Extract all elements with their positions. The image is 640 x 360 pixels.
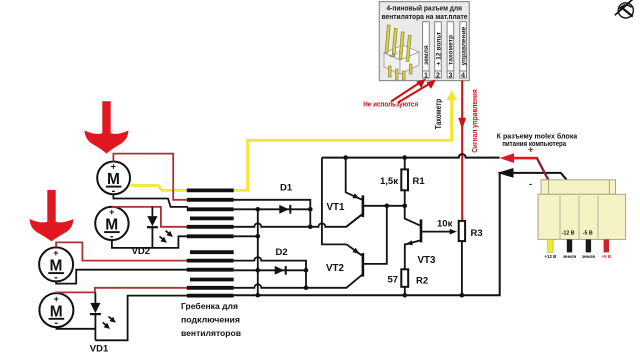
svg-text:VD1: VD1 xyxy=(90,343,109,354)
potentiometer R3 xyxy=(459,221,465,295)
red annotation arrow to pin2 xyxy=(398,80,436,103)
svg-text:-: - xyxy=(529,179,532,189)
red wire +12 to molex xyxy=(513,158,548,180)
top supply rail with hop over red line xyxy=(322,154,500,157)
svg-text:К разъему molex блока: К разъему molex блока xyxy=(497,132,578,140)
svg-text:+: + xyxy=(53,248,58,258)
wire VD1 return to comb xyxy=(95,296,188,341)
comb pin header bars xyxy=(187,190,234,295)
bottom ground rail xyxy=(234,173,567,295)
red control signal line xyxy=(461,81,463,221)
black wire fan M3 minus xyxy=(56,270,188,284)
svg-text:1,5к: 1,5к xyxy=(380,176,398,187)
svg-text:VT2: VT2 xyxy=(326,263,345,274)
wire comb row5 to VT1 collector with hops xyxy=(234,215,362,227)
wire comb row8 to D2 node xyxy=(234,257,306,270)
resistor R1 xyxy=(401,158,408,206)
fan motor M2 xyxy=(95,207,128,243)
red wire fan M1 plus xyxy=(113,154,188,200)
svg-text:R2: R2 xyxy=(416,275,428,286)
yellow tachometer wire comb to arrow xyxy=(234,140,452,190)
wire D1 anode line xyxy=(234,208,311,210)
svg-text:R3: R3 xyxy=(471,228,483,239)
svg-text:2: 2 xyxy=(436,72,440,79)
svg-text:+5 В: +5 В xyxy=(602,254,611,259)
wire D2 anode line xyxy=(234,269,306,271)
node vertical D2 branch xyxy=(305,270,307,288)
red arrow to rail xyxy=(500,153,514,163)
svg-text:57: 57 xyxy=(388,274,399,285)
svg-text:земля: земля xyxy=(582,254,596,259)
svg-text:питания компьютера: питания компьютера xyxy=(502,141,566,148)
svg-text:R1: R1 xyxy=(413,176,426,187)
molex wire stub ground black xyxy=(567,239,572,252)
svg-text:3: 3 xyxy=(448,72,452,79)
led VD1 xyxy=(90,292,116,340)
black wire fan M1 minus xyxy=(113,194,188,207)
svg-text:+: + xyxy=(528,145,533,155)
svg-text:4: 4 xyxy=(461,72,465,79)
diode D2 xyxy=(275,266,285,275)
black arrow to molex ground xyxy=(497,168,513,178)
svg-text:земля: земля xyxy=(423,45,430,65)
svg-text:D2: D2 xyxy=(276,247,288,258)
transistor VT2 xyxy=(347,206,387,277)
pin 4 label box управление xyxy=(460,22,468,80)
svg-text:вентиляторов: вентиляторов xyxy=(181,328,241,338)
yellow tachometer wire from fan M1 xyxy=(131,186,189,191)
molex wire stub ground black xyxy=(586,239,591,252)
red control signal arrowhead xyxy=(458,118,466,130)
big red arrow 1 xyxy=(85,101,129,153)
molex wire stub +5V red xyxy=(604,239,609,252)
wire comb row6 to bus xyxy=(234,235,258,237)
yellow tachometer arrow up xyxy=(450,99,453,142)
molex wire stub +12V yellow xyxy=(548,239,553,252)
red wire fan M2 plus xyxy=(112,207,188,227)
red wire fan M3 plus xyxy=(56,242,188,260)
junction dots xyxy=(255,155,464,297)
svg-text:тахометр: тахометр xyxy=(448,35,455,65)
pin 1 label boxземля xyxy=(423,22,431,80)
molex connector body xyxy=(538,180,626,240)
fan motor M1 xyxy=(97,162,130,197)
svg-text:VT1: VT1 xyxy=(327,202,346,213)
red wire fan M4 plus xyxy=(56,288,188,293)
svg-text:D1: D1 xyxy=(280,183,293,194)
red annotation arrow to pin1 xyxy=(391,79,426,102)
svg-text:Сигнал управления: Сигнал управления xyxy=(470,89,479,153)
led VD2 xyxy=(147,207,173,248)
transistor VT1 xyxy=(346,158,405,227)
molex stub labels xyxy=(544,254,611,259)
svg-text:Гребенка для: Гребенка для xyxy=(181,301,238,311)
svg-text:вентилятора на мат.плате: вентилятора на мат.плате xyxy=(382,12,468,21)
svg-text:земля: земля xyxy=(563,254,577,259)
svg-text:-5 В: -5 В xyxy=(583,231,593,237)
svg-text:+: + xyxy=(111,162,116,172)
node vertical D1 to VT1 line xyxy=(309,209,311,227)
left rail drop to VT2 emitter xyxy=(322,158,347,245)
pin 2 label box +12 вольт xyxy=(435,22,443,80)
resistor R2 xyxy=(401,269,408,295)
bus vertical line xyxy=(257,209,259,295)
black wire fan M4 minus xyxy=(56,327,95,329)
svg-text:+: + xyxy=(109,207,114,217)
svg-text:-12 В: -12 В xyxy=(562,231,575,237)
transistor VT3 xyxy=(405,206,457,269)
fan motor M4 xyxy=(39,293,73,329)
svg-text:управление: управление xyxy=(460,26,467,65)
4-pin header 3d art xyxy=(384,25,419,80)
pin 3 label box тахометр xyxy=(447,22,455,80)
svg-text:подключения: подключения xyxy=(181,315,240,325)
wire comb row2 to D1 node xyxy=(234,200,311,210)
svg-text:+: + xyxy=(54,294,59,304)
svg-text:+12 В: +12 В xyxy=(544,254,556,259)
big red arrow 2 xyxy=(30,190,74,241)
svg-text:+ 12 вольт: + 12 вольт xyxy=(435,31,442,65)
fan motor M3 xyxy=(39,247,73,283)
motherboard connector gray box xyxy=(379,2,469,81)
diode D1 xyxy=(279,205,289,214)
svg-text:VD2: VD2 xyxy=(132,246,150,257)
svg-text:1: 1 xyxy=(424,72,428,79)
logo hammer-and-pick emblem top right xyxy=(615,0,634,18)
wire comb row11 to VT2 collector with hop xyxy=(234,275,362,288)
black wire fan M2 minus joined with VD2 xyxy=(112,236,188,248)
svg-text:VT3: VT3 xyxy=(418,255,437,266)
svg-text:10к: 10к xyxy=(437,219,453,230)
svg-text:Тахометр: Тахометр xyxy=(434,99,443,130)
